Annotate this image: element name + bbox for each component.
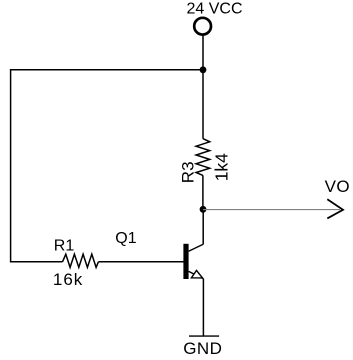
label R1 <box>54 238 75 255</box>
label VO <box>325 177 350 196</box>
wire collector up to node <box>202 209 204 244</box>
transistor Q1 <box>183 244 203 279</box>
output VO arrow <box>327 199 343 218</box>
svg-text:16k: 16k <box>53 270 83 289</box>
wire junction to R3 <box>202 70 204 139</box>
node collector <box>200 206 207 213</box>
svg-text:R1: R1 <box>54 238 75 255</box>
label 24 VCC <box>187 1 243 18</box>
label GND <box>183 339 222 358</box>
wire VCC terminal to junction <box>202 35 204 70</box>
svg-text:1k4: 1k4 <box>211 153 231 181</box>
node junction top <box>200 66 207 73</box>
label Q1 <box>115 230 136 247</box>
ground <box>189 335 219 337</box>
label 1k4 <box>211 153 231 181</box>
svg-text:GND: GND <box>183 339 222 358</box>
resistor R1 <box>63 254 99 267</box>
VCC terminal <box>194 18 211 35</box>
wire emitter down <box>202 279 204 337</box>
wire feedback loop left <box>11 70 203 262</box>
svg-text:Q1: Q1 <box>115 230 136 247</box>
label 16k <box>53 270 83 289</box>
wire R1 to base <box>98 261 183 263</box>
wire to VO <box>203 209 340 211</box>
label R3 <box>179 161 198 183</box>
svg-text:R3: R3 <box>179 161 198 183</box>
resistor R3 <box>196 139 210 176</box>
svg-text:24 VCC: 24 VCC <box>187 1 243 18</box>
wire R3 to node <box>202 175 204 209</box>
svg-text:VO: VO <box>325 177 350 196</box>
